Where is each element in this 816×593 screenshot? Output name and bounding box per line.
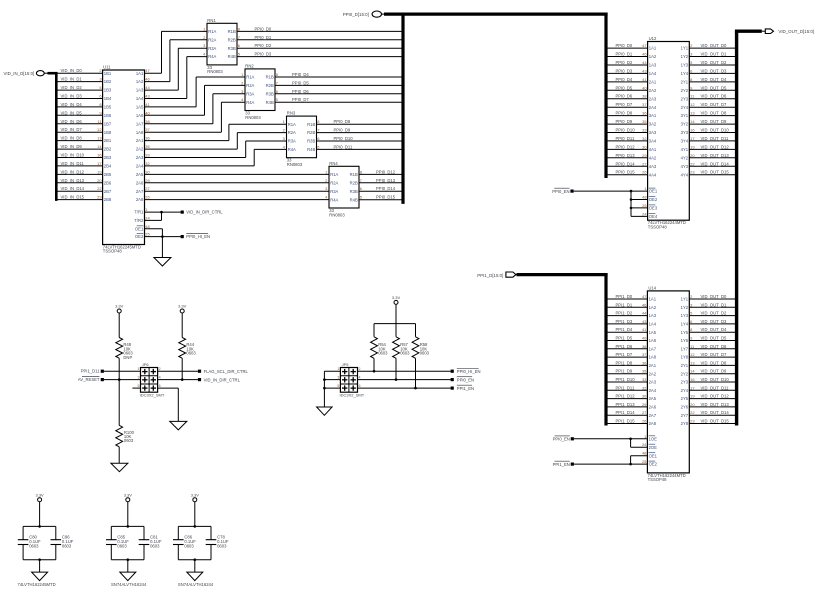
svg-text:2A4: 2A4 <box>136 164 144 169</box>
svg-text:PPI1_D14: PPI1_D14 <box>616 410 636 415</box>
svg-text:RN0803: RN0803 <box>207 69 223 74</box>
svg-text:PPI0_D13: PPI0_D13 <box>376 178 396 183</box>
svg-text:1Y4: 1Y4 <box>681 71 689 76</box>
svg-text:RN2: RN2 <box>245 64 254 69</box>
svg-text:38: 38 <box>642 94 647 99</box>
svg-text:37: 37 <box>642 352 647 357</box>
svg-text:30: 30 <box>642 144 647 149</box>
svg-text:3A3: 3A3 <box>649 130 657 135</box>
svg-text:14: 14 <box>690 369 695 374</box>
svg-text:IDC3X2_SMT: IDC3X2_SMT <box>340 393 365 398</box>
svg-text:OE2: OE2 <box>135 234 144 239</box>
svg-text:5: 5 <box>337 384 339 388</box>
svg-text:PPI1_D9: PPI1_D9 <box>616 369 633 374</box>
svg-text:PPI0_D14: PPI0_D14 <box>376 186 396 191</box>
svg-text:0603: 0603 <box>217 544 227 549</box>
svg-text:4Y3: 4Y3 <box>681 164 689 169</box>
svg-text:22: 22 <box>97 186 102 191</box>
svg-text:1A3: 1A3 <box>649 313 657 318</box>
svg-text:1: 1 <box>337 367 339 371</box>
svg-text:R3A: R3A <box>208 46 216 51</box>
svg-text:VID_IN_D15: VID_IN_D15 <box>61 195 85 200</box>
svg-text:1B2: 1B2 <box>104 79 112 84</box>
svg-text:1A1: 1A1 <box>649 297 657 302</box>
svg-text:3.3V: 3.3V <box>392 295 401 300</box>
svg-text:44: 44 <box>145 85 150 90</box>
svg-text:2A2: 2A2 <box>649 371 657 376</box>
svg-text:JP5: JP5 <box>342 362 350 367</box>
svg-text:C85: C85 <box>117 534 125 539</box>
svg-text:RN4: RN4 <box>329 161 338 166</box>
svg-text:2Y2: 2Y2 <box>681 88 689 93</box>
svg-text:PPI0_D[15:0]: PPI0_D[15:0] <box>343 12 369 17</box>
svg-text:1B1: 1B1 <box>104 71 112 76</box>
svg-text:R3B: R3B <box>228 46 236 51</box>
svg-text:3.3V: 3.3V <box>115 304 124 309</box>
svg-text:PPI0_D11: PPI0_D11 <box>616 136 635 141</box>
svg-text:R4A: R4A <box>330 197 338 202</box>
svg-text:PPI0_D5: PPI0_D5 <box>292 80 309 85</box>
svg-text:1A8: 1A8 <box>649 355 657 360</box>
svg-text:OE2: OE2 <box>649 462 658 467</box>
svg-text:4A2: 4A2 <box>649 155 657 160</box>
svg-text:PPI0_D12: PPI0_D12 <box>376 169 396 174</box>
svg-text:PPI1_EN: PPI1_EN <box>457 386 474 391</box>
svg-text:12: 12 <box>690 352 695 357</box>
svg-text:PPI0_D15: PPI0_D15 <box>376 195 396 200</box>
svg-text:2Y1: 2Y1 <box>681 80 689 85</box>
svg-text:5: 5 <box>138 384 140 388</box>
svg-text:1A1: 1A1 <box>136 71 144 76</box>
svg-text:35: 35 <box>642 369 647 374</box>
svg-text:PPI0_D13: PPI0_D13 <box>616 153 636 158</box>
svg-text:3.3V: 3.3V <box>191 492 200 497</box>
svg-text:1OE: 1OE <box>649 436 658 441</box>
svg-text:27: 27 <box>145 186 150 191</box>
svg-text:VID_OUT_D12: VID_OUT_D12 <box>701 394 730 399</box>
svg-text:23: 23 <box>690 170 695 175</box>
svg-text:43: 43 <box>642 68 647 73</box>
svg-text:32: 32 <box>642 136 647 141</box>
svg-text:3Y2: 3Y2 <box>681 122 689 127</box>
svg-text:VID_OUT_D7: VID_OUT_D7 <box>701 102 728 107</box>
svg-text:PPI0_D4: PPI0_D4 <box>292 72 309 77</box>
svg-text:R4B: R4B <box>266 100 274 105</box>
svg-text:2A7: 2A7 <box>136 189 144 194</box>
svg-text:VID_OUT_D6: VID_OUT_D6 <box>701 94 728 99</box>
svg-text:2A7: 2A7 <box>649 413 657 418</box>
svg-text:1B8: 1B8 <box>104 130 112 135</box>
svg-text:OE1: OE1 <box>649 189 658 194</box>
svg-text:TSSOP48: TSSOP48 <box>648 225 668 230</box>
svg-text:33: 33 <box>642 377 647 382</box>
svg-text:1B7: 1B7 <box>104 121 112 126</box>
svg-text:OE4: OE4 <box>649 214 658 219</box>
svg-text:29: 29 <box>145 178 150 183</box>
svg-text:2B2: 2B2 <box>104 147 112 152</box>
svg-text:VID_OUT_D[15:0]: VID_OUT_D[15:0] <box>778 29 814 34</box>
svg-text:23: 23 <box>690 419 695 424</box>
svg-text:3.3V: 3.3V <box>124 492 133 497</box>
svg-text:VID_OUT_D15: VID_OUT_D15 <box>701 170 730 175</box>
svg-text:1Y5: 1Y5 <box>681 330 689 335</box>
svg-text:33: 33 <box>642 128 647 133</box>
svg-text:2B1: 2B1 <box>104 138 112 143</box>
svg-text:6: 6 <box>359 384 361 388</box>
svg-text:1Y2: 1Y2 <box>681 305 689 310</box>
svg-text:1A3: 1A3 <box>649 63 657 68</box>
svg-text:35: 35 <box>145 144 150 149</box>
svg-text:PPI0_D8: PPI0_D8 <box>616 111 633 116</box>
svg-text:2B5: 2B5 <box>104 172 112 177</box>
svg-text:16: 16 <box>690 128 695 133</box>
svg-text:VID_OUT_D10: VID_OUT_D10 <box>701 377 730 382</box>
svg-text:1Y1: 1Y1 <box>681 297 689 302</box>
svg-text:PPI0_EN: PPI0_EN <box>552 189 569 194</box>
svg-text:PPI0_D14: PPI0_D14 <box>616 161 636 166</box>
svg-text:23: 23 <box>97 195 102 200</box>
svg-text:3.3V: 3.3V <box>35 492 44 497</box>
svg-text:30: 30 <box>145 169 150 174</box>
svg-text:0603: 0603 <box>117 544 127 549</box>
svg-text:1Y3: 1Y3 <box>681 313 689 318</box>
svg-text:2A4: 2A4 <box>649 105 657 110</box>
svg-text:VID_OUT_D2: VID_OUT_D2 <box>701 60 728 65</box>
svg-text:R3B: R3B <box>266 91 274 96</box>
svg-text:T/R1: T/R1 <box>134 210 144 215</box>
svg-text:14: 14 <box>97 144 102 149</box>
svg-text:VID_IN_D8: VID_IN_D8 <box>61 136 83 141</box>
svg-text:2B4: 2B4 <box>104 164 112 169</box>
svg-text:PPI1_D11: PPI1_D11 <box>81 369 100 374</box>
svg-text:RN3: RN3 <box>287 111 296 116</box>
svg-text:U12: U12 <box>649 36 657 41</box>
svg-text:0603: 0603 <box>184 544 194 549</box>
svg-text:3: 3 <box>138 375 140 379</box>
svg-text:2Y8: 2Y8 <box>681 421 689 426</box>
svg-text:2A1: 2A1 <box>649 363 657 368</box>
svg-text:1A3: 1A3 <box>136 88 144 93</box>
svg-text:IDC3X2_SMT: IDC3X2_SMT <box>140 393 165 398</box>
svg-text:74LVTH162245MTD: 74LVTH162245MTD <box>18 582 56 587</box>
svg-text:1A7: 1A7 <box>649 346 657 351</box>
svg-text:3Y1: 3Y1 <box>681 113 689 118</box>
svg-text:OE1: OE1 <box>649 453 658 458</box>
svg-text:2A5: 2A5 <box>649 396 657 401</box>
svg-text:22: 22 <box>690 410 695 415</box>
svg-text:R1A: R1A <box>246 75 254 80</box>
svg-text:4A3: 4A3 <box>649 164 657 169</box>
svg-text:27: 27 <box>642 410 647 415</box>
svg-text:48: 48 <box>642 451 647 456</box>
svg-text:47: 47 <box>642 294 647 299</box>
svg-text:VID_OUT_D13: VID_OUT_D13 <box>701 153 730 158</box>
svg-text:VID_OUT_D0: VID_OUT_D0 <box>701 294 728 299</box>
svg-text:R4B: R4B <box>228 54 236 59</box>
svg-text:2A3: 2A3 <box>649 380 657 385</box>
svg-text:1: 1 <box>138 367 140 371</box>
svg-text:1A2: 1A2 <box>136 79 144 84</box>
svg-text:PPI0_D9: PPI0_D9 <box>334 128 351 133</box>
svg-text:1A6: 1A6 <box>136 113 144 118</box>
svg-text:VID_IN_D7: VID_IN_D7 <box>61 127 83 132</box>
svg-text:OE3: OE3 <box>649 206 658 211</box>
svg-text:19: 19 <box>690 394 695 399</box>
svg-text:13: 13 <box>690 111 695 116</box>
svg-text:R3A: R3A <box>288 139 296 144</box>
svg-text:PPI1_D10: PPI1_D10 <box>616 377 636 382</box>
svg-text:2A6: 2A6 <box>136 180 144 185</box>
svg-text:36: 36 <box>642 111 647 116</box>
svg-text:48: 48 <box>642 195 647 200</box>
svg-text:1A2: 1A2 <box>649 54 657 59</box>
svg-text:25: 25 <box>642 203 647 208</box>
svg-text:2Y6: 2Y6 <box>681 405 689 410</box>
svg-text:VID_OUT_D9: VID_OUT_D9 <box>701 119 728 124</box>
svg-text:VID_OUT_D14: VID_OUT_D14 <box>701 161 730 166</box>
svg-text:PPI0_EN: PPI0_EN <box>457 377 474 382</box>
svg-text:13: 13 <box>97 136 102 141</box>
svg-text:32: 32 <box>145 161 150 166</box>
svg-text:6: 6 <box>159 384 161 388</box>
svg-text:PPI1_D1: PPI1_D1 <box>616 302 633 307</box>
svg-text:R3A: R3A <box>330 189 338 194</box>
svg-text:VID_IN_D13: VID_IN_D13 <box>61 178 85 183</box>
svg-text:0603: 0603 <box>150 544 160 549</box>
svg-text:2B3: 2B3 <box>104 155 112 160</box>
svg-text:PPI0_D0: PPI0_D0 <box>255 26 272 31</box>
svg-text:0603: 0603 <box>420 351 430 356</box>
svg-text:R4A: R4A <box>246 100 254 105</box>
svg-text:PPI0_D1: PPI0_D1 <box>255 35 272 40</box>
svg-text:38: 38 <box>642 344 647 349</box>
svg-text:29: 29 <box>642 153 647 158</box>
svg-text:PPI0_D6: PPI0_D6 <box>292 89 309 94</box>
svg-text:DNP: DNP <box>123 355 132 360</box>
svg-text:PPI0_EN: PPI0_EN <box>553 437 570 442</box>
svg-text:3.3V: 3.3V <box>178 304 187 309</box>
svg-text:R3B: R3B <box>350 189 358 194</box>
svg-text:2A5: 2A5 <box>136 172 144 177</box>
svg-text:PPI1_D8: PPI1_D8 <box>616 360 633 365</box>
svg-text:VID_OUT_D14: VID_OUT_D14 <box>701 410 730 415</box>
svg-text:1A4: 1A4 <box>649 322 657 327</box>
svg-text:17: 17 <box>690 136 695 141</box>
svg-text:41: 41 <box>642 327 647 332</box>
svg-text:2A2: 2A2 <box>136 147 144 152</box>
svg-text:C86: C86 <box>184 534 192 539</box>
svg-text:OE2: OE2 <box>649 197 658 202</box>
svg-text:4Y4: 4Y4 <box>681 172 689 177</box>
svg-text:1B4: 1B4 <box>104 96 112 101</box>
svg-text:PPI0_D15: PPI0_D15 <box>616 170 636 175</box>
svg-text:14: 14 <box>690 119 695 124</box>
svg-text:VID_OUT_D5: VID_OUT_D5 <box>701 85 728 90</box>
svg-text:VID_OUT_D8: VID_OUT_D8 <box>701 360 728 365</box>
svg-text:R3B: R3B <box>307 139 315 144</box>
svg-text:1A5: 1A5 <box>649 330 657 335</box>
svg-text:2Y2: 2Y2 <box>681 371 689 376</box>
svg-text:1Y2: 1Y2 <box>681 54 689 59</box>
svg-text:PPI0_D12: PPI0_D12 <box>616 144 636 149</box>
svg-text:38: 38 <box>145 119 150 124</box>
svg-text:VID_OUT_D3: VID_OUT_D3 <box>701 319 728 324</box>
svg-text:43: 43 <box>145 94 150 99</box>
svg-text:41: 41 <box>642 77 647 82</box>
svg-text:FLAG_SCL_DIR_CTRL: FLAG_SCL_DIR_CTRL <box>204 369 249 374</box>
svg-text:R1B: R1B <box>228 29 236 34</box>
svg-text:PPI0_D8: PPI0_D8 <box>334 119 351 124</box>
svg-text:PPI0_D5: PPI0_D5 <box>616 85 633 90</box>
svg-text:C78: C78 <box>217 534 225 539</box>
svg-text:33: 33 <box>145 153 150 158</box>
svg-text:VID_OUT_D4: VID_OUT_D4 <box>701 327 728 332</box>
svg-text:1A8: 1A8 <box>136 130 144 135</box>
svg-text:R2B: R2B <box>350 180 358 185</box>
svg-text:VID_OUT_D11: VID_OUT_D11 <box>701 385 730 390</box>
svg-text:40: 40 <box>642 85 647 90</box>
svg-text:PPI0_HI_EN: PPI0_HI_EN <box>457 369 481 374</box>
svg-text:PPI1_D3: PPI1_D3 <box>616 319 633 324</box>
svg-text:2Y1: 2Y1 <box>681 363 689 368</box>
svg-text:R2A: R2A <box>208 37 216 42</box>
svg-text:1A6: 1A6 <box>649 338 657 343</box>
svg-text:40: 40 <box>145 110 150 115</box>
svg-text:2A1: 2A1 <box>649 80 657 85</box>
svg-text:12: 12 <box>97 127 102 132</box>
svg-text:VID_OUT_D3: VID_OUT_D3 <box>701 68 728 73</box>
svg-text:PPI1_D7: PPI1_D7 <box>616 352 633 357</box>
svg-text:PPI0_D3: PPI0_D3 <box>255 52 272 57</box>
svg-text:1A7: 1A7 <box>136 121 144 126</box>
svg-text:1B5: 1B5 <box>104 105 112 110</box>
svg-text:19: 19 <box>97 169 102 174</box>
svg-text:VID_OUT_D12: VID_OUT_D12 <box>701 144 730 149</box>
svg-text:37: 37 <box>642 102 647 107</box>
svg-text:26: 26 <box>642 170 647 175</box>
svg-text:VID_OUT_D8: VID_OUT_D8 <box>701 111 728 116</box>
svg-text:VID_OUT_D4: VID_OUT_D4 <box>701 77 728 82</box>
svg-text:22: 22 <box>690 161 695 166</box>
svg-text:2Y4: 2Y4 <box>681 105 689 110</box>
svg-text:RN0803: RN0803 <box>329 212 345 217</box>
svg-text:JP6: JP6 <box>142 362 150 367</box>
svg-text:PPI0_D7: PPI0_D7 <box>616 102 633 107</box>
svg-text:47: 47 <box>145 68 150 73</box>
svg-text:2: 2 <box>359 367 361 371</box>
svg-text:R3A: R3A <box>246 91 254 96</box>
svg-text:AV_RESET: AV_RESET <box>78 377 100 382</box>
svg-text:VID_OUT_D6: VID_OUT_D6 <box>701 344 728 349</box>
svg-text:PPI0_D3: PPI0_D3 <box>616 68 633 73</box>
svg-text:12: 12 <box>690 102 695 107</box>
svg-text:2A6: 2A6 <box>649 405 657 410</box>
svg-text:2A2: 2A2 <box>649 88 657 93</box>
svg-text:1A4: 1A4 <box>649 71 657 76</box>
svg-text:48: 48 <box>145 224 150 229</box>
svg-text:R1A: R1A <box>208 29 216 34</box>
svg-text:VID_OUT_D15: VID_OUT_D15 <box>701 419 730 424</box>
svg-text:0603: 0603 <box>400 351 410 356</box>
svg-text:26: 26 <box>145 195 150 200</box>
svg-text:3: 3 <box>337 375 339 379</box>
svg-text:36: 36 <box>145 136 150 141</box>
svg-text:PPI0_HI_EN: PPI0_HI_EN <box>186 234 210 239</box>
svg-text:2A8: 2A8 <box>136 197 144 202</box>
svg-text:VID_IN_DIR_CTRL: VID_IN_DIR_CTRL <box>186 210 223 215</box>
svg-text:24: 24 <box>145 215 150 220</box>
svg-text:U14: U14 <box>648 286 656 291</box>
svg-text:PPI0_D9: PPI0_D9 <box>616 119 633 124</box>
svg-text:1A4: 1A4 <box>136 96 144 101</box>
svg-text:PPI1_D4: PPI1_D4 <box>616 327 633 332</box>
svg-text:PPI0_D1: PPI0_D1 <box>616 52 633 57</box>
svg-text:PPI0_D7: PPI0_D7 <box>292 97 309 102</box>
svg-text:VID_IN_D4: VID_IN_D4 <box>61 102 83 107</box>
svg-text:VID_IN_D5: VID_IN_D5 <box>61 110 83 115</box>
svg-text:2B8: 2B8 <box>104 197 112 202</box>
svg-text:1Y1: 1Y1 <box>681 46 689 51</box>
svg-text:VID_IN_D11: VID_IN_D11 <box>61 161 85 166</box>
svg-text:1B6: 1B6 <box>104 113 112 118</box>
svg-text:PPI1_D2: PPI1_D2 <box>616 311 633 316</box>
svg-text:2A3: 2A3 <box>649 96 657 101</box>
svg-text:2B6: 2B6 <box>104 180 112 185</box>
svg-text:R2A: R2A <box>288 130 296 135</box>
svg-text:47: 47 <box>642 43 647 48</box>
svg-text:R1B: R1B <box>307 122 315 127</box>
svg-text:RN0803: RN0803 <box>287 162 303 167</box>
svg-text:RN0803: RN0803 <box>245 115 261 120</box>
svg-text:40: 40 <box>642 336 647 341</box>
svg-text:R1B: R1B <box>350 172 358 177</box>
svg-text:16: 16 <box>690 377 695 382</box>
svg-text:0603: 0603 <box>186 351 196 356</box>
svg-text:R2B: R2B <box>307 130 315 135</box>
svg-text:2A4: 2A4 <box>649 388 657 393</box>
svg-text:PPI0_D10: PPI0_D10 <box>334 136 354 141</box>
svg-text:R2A: R2A <box>330 180 338 185</box>
svg-text:41: 41 <box>145 102 150 107</box>
svg-text:R2B: R2B <box>228 37 236 42</box>
svg-text:PPI0_D4: PPI0_D4 <box>616 77 633 82</box>
svg-text:43: 43 <box>642 319 647 324</box>
svg-text:3A4: 3A4 <box>649 139 657 144</box>
svg-text:VID_IN_D12: VID_IN_D12 <box>61 169 85 174</box>
svg-text:VID_IN_D14: VID_IN_D14 <box>61 186 85 191</box>
svg-text:VID_IN_DIR_CTRL: VID_IN_DIR_CTRL <box>204 377 241 382</box>
svg-text:R4A: R4A <box>208 54 216 59</box>
svg-text:4Y1: 4Y1 <box>681 147 689 152</box>
svg-text:1A2: 1A2 <box>649 305 657 310</box>
svg-text:VID_OUT_D13: VID_OUT_D13 <box>701 402 730 407</box>
svg-text:13: 13 <box>690 360 695 365</box>
svg-text:1Y6: 1Y6 <box>681 338 689 343</box>
svg-text:SN74ALVTH16244: SN74ALVTH16244 <box>111 582 147 587</box>
svg-text:0603: 0603 <box>378 351 388 356</box>
svg-text:VID_OUT_D1: VID_OUT_D1 <box>701 52 728 57</box>
svg-text:25: 25 <box>642 459 647 464</box>
svg-text:C80: C80 <box>29 534 37 539</box>
svg-text:C81: C81 <box>150 534 158 539</box>
svg-text:PPI1_D11: PPI1_D11 <box>616 385 635 390</box>
svg-text:3Y4: 3Y4 <box>681 139 689 144</box>
svg-text:1A1: 1A1 <box>649 46 657 51</box>
svg-text:4: 4 <box>159 375 161 379</box>
svg-text:R1B: R1B <box>266 75 274 80</box>
svg-text:0603: 0603 <box>124 438 134 443</box>
svg-text:VID_IN_D3: VID_IN_D3 <box>61 94 83 99</box>
